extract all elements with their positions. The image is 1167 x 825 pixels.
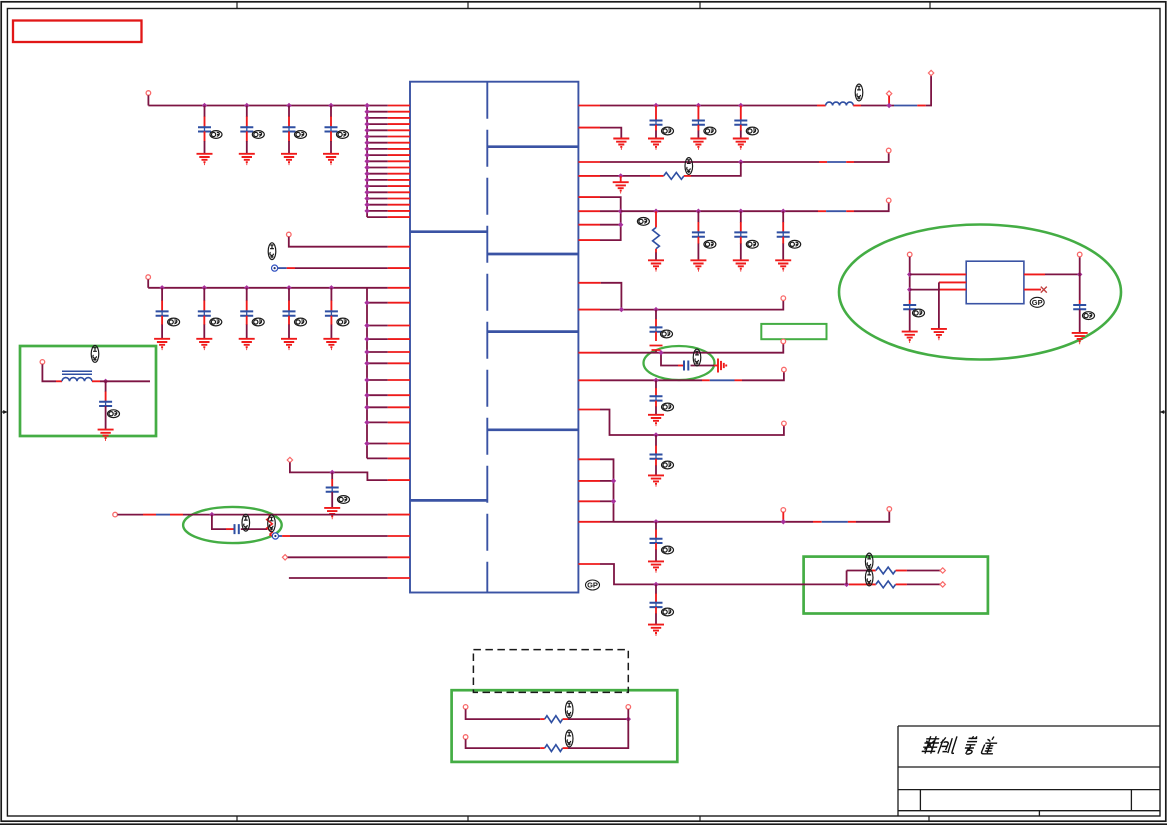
U1 left section divider B: [410, 499, 487, 502]
wire J2: [289, 237, 388, 247]
capacitor C21 top lead a: [655, 380, 657, 388]
wire ladder1 rung 8: [367, 148, 388, 150]
terminal J16: [781, 508, 786, 513]
capacitor C3 bottom lead: [288, 131, 290, 141]
capacitor C23 bottom lead: [655, 543, 657, 550]
wire J16 stub: [782, 512, 784, 522]
inductor L2 right lead: [853, 105, 861, 107]
ground R4 stub: [620, 176, 622, 182]
junction ladder1 5: [364, 128, 369, 133]
U1 left pin 9: [388, 154, 410, 156]
wire bus VCC1: [148, 105, 367, 107]
capacitor C19: [650, 326, 663, 333]
green label rect: [761, 324, 826, 339]
capacitor C10 top lead a: [331, 472, 333, 479]
capacitor C19 top lead: [655, 319, 657, 327]
wire R5 b: [854, 203, 889, 212]
resistor R3 top lead: [655, 211, 657, 227]
capacitor C23 label: [662, 546, 674, 554]
capacitor C25 label: [913, 309, 925, 317]
capacitor C23: [650, 538, 663, 545]
resistor R3: [653, 228, 660, 249]
junction bank1 C4: [328, 103, 333, 108]
ground C3: [281, 154, 297, 164]
U1 left pin 5: [388, 129, 410, 131]
wire U2 out vertical: [1079, 257, 1081, 300]
capacitor C13 label: [662, 127, 674, 135]
capacitor C22 top lead a: [655, 435, 657, 446]
wire R3 a: [600, 161, 819, 163]
capacitor C5: [156, 310, 169, 317]
junction bank2 C7: [244, 285, 249, 290]
junction ladder2 11: [364, 441, 369, 446]
junction R10 a: [611, 478, 616, 483]
capacitor C22: [650, 453, 663, 460]
left mid arrow: [1, 411, 7, 413]
U1 left pin 8: [388, 148, 410, 150]
wire R1 blue seg: [894, 105, 917, 107]
wire R8 red b: [735, 379, 743, 381]
wire ladder1 rung 13: [367, 179, 388, 181]
capacitor C21 bottom lead: [655, 401, 657, 407]
resistor R4 right lead: [896, 570, 907, 572]
capacitor C16 bottom lead: [697, 237, 699, 244]
capacitor C18 top lead: [782, 222, 784, 232]
wire R7 bus: [600, 344, 783, 353]
wire J5 red seg a: [143, 514, 156, 516]
U1 right pin 15: [578, 480, 600, 482]
capacitor C4: [325, 126, 338, 133]
U1 left pin 6: [388, 136, 410, 138]
capacitor C14 bottom lead 2: [697, 131, 699, 139]
junction bank2 C8: [286, 285, 291, 290]
junction C10: [330, 470, 335, 475]
capacitor C7 top lead 2: [246, 301, 248, 312]
capacitor C24 bottom lead 2: [655, 614, 657, 625]
U1 left pin 7: [388, 142, 410, 144]
U1 left pin 24: [388, 325, 410, 327]
junction ladder1 13: [364, 177, 369, 182]
resistor R2 label: [685, 158, 693, 175]
capacitor C19 bottom lead 2: [655, 351, 657, 353]
U1 right pin 9: [578, 282, 600, 284]
wire R3 red b: [846, 161, 854, 163]
ground C23: [648, 561, 664, 571]
capacitor C4 label: [337, 131, 349, 139]
capacitor C2 top lead 2: [246, 106, 248, 117]
capacitor C1 top lead: [204, 116, 206, 127]
junction R5 R3: [653, 209, 658, 214]
earth ground rotated: [718, 359, 726, 373]
capacitor C13 top lead: [655, 106, 657, 121]
wire R10 blue: [822, 521, 848, 523]
wire clock drop: [212, 515, 226, 530]
U1 right section divider C: [487, 330, 578, 333]
capacitor C12 bottom lead: [105, 406, 107, 430]
wire NC1 blue seg: [278, 267, 287, 269]
U2 pin in2: [940, 289, 966, 291]
U1 right pin 17: [578, 521, 600, 523]
capacitor C3 bottom lead 2: [288, 141, 290, 154]
wire J1 stub: [147, 95, 149, 105]
ground C6: [196, 339, 212, 349]
resistor R5 label: [865, 569, 873, 586]
wire J4: [290, 462, 388, 480]
terminal J17: [887, 507, 892, 512]
wire R5 p5: [600, 197, 621, 211]
wire ladder1 rung 16: [367, 198, 388, 200]
wire NC2: [290, 535, 388, 537]
U1 left pin 3: [388, 117, 410, 119]
wire R7 left: [466, 739, 541, 748]
U1 left pin 26: [388, 351, 410, 353]
ground C13: [648, 139, 664, 149]
ground C14: [690, 139, 706, 149]
U1 right pin 2: [578, 127, 600, 129]
green ellipse small right: [644, 346, 715, 380]
U2 pin nc: [1024, 289, 1041, 291]
capacitor C6: [198, 310, 211, 317]
capacitor C20 label: [693, 349, 701, 366]
capacitor C5 top lead: [161, 288, 163, 301]
capacitor C9 label: [337, 318, 349, 326]
capacitor C10 label: [338, 496, 350, 504]
wire R4 a: [600, 175, 650, 177]
junction ladder1 3: [364, 115, 369, 120]
junction R10 J16: [781, 519, 786, 524]
capacitor C2 bottom lead 2: [246, 141, 248, 154]
wire ladder1 rung 17: [367, 204, 388, 206]
capacitor C7 label: [252, 318, 264, 326]
wire ladder2 rung 12: [367, 457, 388, 459]
terminal J6: [282, 555, 287, 560]
wire R5 p6: [600, 210, 621, 212]
junction ladder1 1: [364, 103, 369, 108]
ground C5: [154, 339, 170, 349]
junction ladder1 7: [364, 140, 369, 145]
U1 left pin 34: [388, 479, 410, 481]
wire R10 p14: [600, 459, 614, 522]
title block outline: [898, 726, 1160, 816]
terminal J20: [907, 252, 912, 257]
capacitor C10: [326, 486, 339, 493]
wire R4 right: [907, 570, 940, 572]
wire R8 red a: [702, 379, 710, 381]
capacitor C24 label: [662, 608, 674, 616]
U1 left pin 35: [388, 514, 410, 516]
capacitor C19 label: [661, 330, 673, 338]
regulator U2 body: [966, 261, 1024, 304]
capacitor C21: [650, 395, 663, 402]
capacitor C22 bottom lead 2: [655, 466, 657, 476]
junction ladder1 2: [364, 109, 369, 114]
capacitor C8: [283, 310, 296, 317]
junction ladder2 8: [364, 393, 369, 398]
junction ladder2 3: [364, 323, 369, 328]
terminal J5: [113, 512, 118, 517]
terminal J3: [146, 275, 151, 280]
junction bank1 C1: [202, 103, 207, 108]
junction box1: [626, 716, 631, 721]
junction R5 b: [618, 222, 623, 227]
ground C9: [323, 339, 339, 349]
terminal J8: [886, 91, 891, 96]
resistor R5 right lead: [896, 583, 907, 585]
wire R4 left: [847, 570, 871, 572]
inductor L2 left lead: [817, 105, 826, 107]
wire ladder2 rung 1: [367, 287, 388, 289]
junction bank2 C5: [159, 285, 164, 290]
zone ticks bottom: [237, 816, 929, 821]
junction U2 out: [1077, 272, 1082, 277]
wire ladder1 rung 10: [367, 160, 388, 162]
capacitor C11: [235, 524, 239, 534]
wire R2: [600, 128, 621, 139]
capacitor C24 top lead a: [655, 584, 657, 594]
U1 left pin 30: [388, 406, 410, 408]
capacitor C6 label: [210, 318, 222, 326]
wire R5 red b: [846, 210, 854, 212]
U1 left pin 10: [388, 160, 410, 162]
wire ladder2 rung 8: [367, 394, 388, 396]
junction R6 a: [619, 307, 624, 312]
junction bank1 C3: [286, 103, 291, 108]
capacitor C15: [734, 119, 747, 126]
wire R7 drop: [661, 353, 678, 366]
wire ladder1 rung 14: [367, 185, 388, 187]
wire ladder2 rung 10: [367, 421, 388, 423]
wire bus VCC2: [148, 287, 367, 289]
wire U2 gnd vertical: [938, 282, 940, 329]
ground C18: [775, 260, 791, 270]
right mid arrow: [1161, 411, 1166, 413]
capacitor C1 label: [210, 131, 222, 139]
junction L1 out: [103, 379, 108, 384]
wire R6 left: [466, 709, 541, 719]
U1 left pin 21: [388, 267, 410, 269]
ground C12: [98, 430, 114, 440]
wire R10 red b: [848, 521, 856, 523]
U1 left section divider A: [410, 230, 487, 233]
capacitor C12 label: [108, 410, 120, 418]
terminal J14: [782, 367, 787, 372]
capacitor C3: [283, 126, 296, 133]
U1 left pin 12: [388, 173, 410, 175]
capacitor C1 top lead 2: [204, 106, 206, 117]
ground C2: [239, 154, 255, 164]
green ellipse left: [183, 507, 282, 543]
capacitor C9 top lead 2: [330, 301, 332, 312]
capacitor C26: [1073, 304, 1086, 311]
capacitor C15 top lead: [740, 106, 742, 121]
capacitor C19 bottom lead: [655, 332, 657, 341]
capacitor C20 right lead: [691, 365, 715, 367]
capacitor C21 bottom lead 2: [655, 407, 657, 415]
U2 pin out: [1024, 273, 1045, 275]
U1 left pin 38: [388, 577, 410, 579]
inductor L1 right lead: [92, 380, 100, 382]
ground C1: [197, 154, 213, 164]
inductor L1 left lead: [56, 380, 62, 382]
capacitor C19 top lead a: [655, 310, 657, 320]
junction ladder1 10: [364, 159, 369, 164]
inductor L2: [826, 102, 854, 105]
resistor R7 left lead: [540, 747, 544, 749]
junction bank2 C9: [329, 285, 334, 290]
wire R3 blue: [827, 161, 846, 163]
wire J5 blue seg: [156, 514, 170, 516]
capacitor C25 bottom lead: [909, 309, 911, 331]
junction R11 box: [844, 582, 849, 587]
capacitor C15 label: [746, 127, 758, 135]
wire J5 red seg b: [170, 514, 183, 516]
capacitor C9 bottom lead: [330, 316, 332, 325]
terminal J22: [463, 705, 468, 710]
terminal J19: [940, 582, 945, 587]
capacitor C6 bottom lead 2: [203, 325, 205, 339]
capacitor C23 top lead: [655, 530, 657, 539]
resistor R4: [876, 567, 896, 574]
junction R5 C18: [781, 209, 786, 214]
junction R7 drop: [658, 350, 663, 355]
capacitor C21 label: [662, 403, 674, 411]
capacitor C14 top lead: [697, 106, 699, 121]
ground C17: [733, 260, 749, 270]
junction R5 a: [618, 209, 623, 214]
resistor R4 left lead: [870, 570, 876, 572]
wire R3 red a: [819, 161, 827, 163]
capacitor C19 pin end marks: [650, 346, 663, 351]
capacitor C4 top lead: [330, 116, 332, 127]
capacitor C6 top lead: [203, 288, 205, 301]
wire J7: [42, 364, 56, 381]
terminal J11: [886, 198, 891, 203]
svg-text:GP: GP: [587, 581, 598, 590]
U1 right pin 13: [578, 409, 600, 411]
ground C15: [733, 139, 749, 149]
ground C26: [1072, 333, 1088, 343]
capacitor C18 top lead a: [782, 211, 784, 222]
ground C10: [324, 508, 340, 518]
wire ladder2 rung 2: [367, 302, 388, 304]
ground C16: [690, 260, 706, 270]
terminal J1: [146, 91, 151, 96]
U1 right pin 8: [578, 239, 600, 241]
wire R11 bus: [600, 564, 847, 584]
wire U2 in2: [910, 289, 940, 291]
U1 right section divider A: [487, 145, 578, 148]
capacitor C13 bottom lead: [655, 125, 657, 131]
terminal J9: [928, 70, 933, 75]
resistor R2 right lead: [684, 175, 691, 177]
resistor R7: [545, 745, 563, 752]
no-connect X mark: [1041, 287, 1047, 293]
junction ladder2 7: [364, 377, 369, 382]
U1 right section divider B: [487, 253, 578, 256]
wire J8 stub: [888, 96, 890, 106]
resistor R3 label: [637, 218, 649, 226]
capacitor C4 bottom lead 2: [330, 141, 332, 154]
U1 right pin 3: [578, 161, 600, 163]
capacitor C17 bottom lead 2: [740, 244, 742, 261]
capacitor C25 top lead: [909, 300, 911, 305]
capacitor C1 bottom lead 2: [204, 141, 206, 154]
capacitor C15 bottom lead 2: [740, 131, 742, 139]
junction ladder1 9: [364, 152, 369, 157]
U1 left pin 23: [388, 302, 410, 304]
capacitor C14: [692, 119, 705, 126]
capacitor C20 left lead: [678, 365, 684, 367]
U1 left pin 33: [388, 457, 410, 459]
U1 left pin 15: [388, 191, 410, 193]
capacitor C16 top lead a: [697, 211, 699, 222]
junction R10 C23: [653, 519, 658, 524]
resistor R5 left lead: [849, 583, 876, 585]
company name glyphs: [921, 736, 998, 754]
capacitor C8 label: [295, 318, 307, 326]
capacitor C16 top lead: [697, 222, 699, 232]
capacitor C5 bottom lead 2: [161, 325, 163, 339]
wire NC2 blue seg: [279, 535, 283, 537]
U1 left pin 2: [388, 111, 410, 113]
wire R10 p16: [600, 500, 614, 502]
capacitor C2 label: [252, 131, 264, 139]
U1 left pin 1: [388, 105, 410, 107]
wire ladder1 rung 11: [367, 167, 388, 169]
wire bus R1: [600, 105, 817, 107]
inductor L1 label: [91, 346, 99, 363]
wire R3 b: [854, 153, 889, 162]
wire ladder2 rung 5: [367, 351, 388, 353]
wire R1 red seg: [917, 105, 926, 107]
capacitor C25: [903, 304, 916, 311]
earth lead: [714, 365, 718, 367]
terminal J21: [1077, 252, 1082, 257]
resistor R4 label: [865, 553, 873, 570]
junction ladder2 2: [364, 300, 369, 305]
wire ladder1 rung 3: [367, 117, 388, 119]
node GP label 1: [586, 580, 600, 590]
capacitor C9 bottom lead 2: [330, 325, 332, 339]
resistor R7 label: [565, 730, 573, 747]
capacitor C7 bottom lead 2: [246, 325, 248, 339]
title block cell dividers: [920, 790, 1131, 816]
junction ladder2 9: [364, 405, 369, 410]
wire NC1: [295, 267, 388, 269]
U1 left pin 16: [388, 198, 410, 200]
wire ladder2 rung 4: [367, 338, 388, 340]
capacitor C14 bottom lead: [697, 125, 699, 131]
terminal J7: [40, 360, 45, 365]
U1 left pin 27: [388, 362, 410, 364]
capacitor C7: [240, 310, 253, 317]
wire bus R5: [621, 210, 818, 212]
capacitor C7 top lead: [246, 288, 248, 301]
wire R1 end: [926, 75, 931, 105]
node NC1 blue circle: [272, 265, 278, 271]
U1 left pin 4: [388, 123, 410, 125]
wire ladder1 rung 18: [367, 210, 388, 212]
capacitor C23 top lead a: [655, 522, 657, 530]
U1 left pin 25: [388, 338, 410, 340]
U1 left pin 32: [388, 443, 410, 445]
capacitor C5 bottom lead: [161, 316, 163, 325]
wire U2 in vertical: [909, 257, 911, 300]
junction ladder1 14: [364, 183, 369, 188]
resistor R5: [876, 581, 896, 588]
capacitor C10 bottom lead: [331, 492, 333, 508]
junction R3: [738, 159, 743, 164]
